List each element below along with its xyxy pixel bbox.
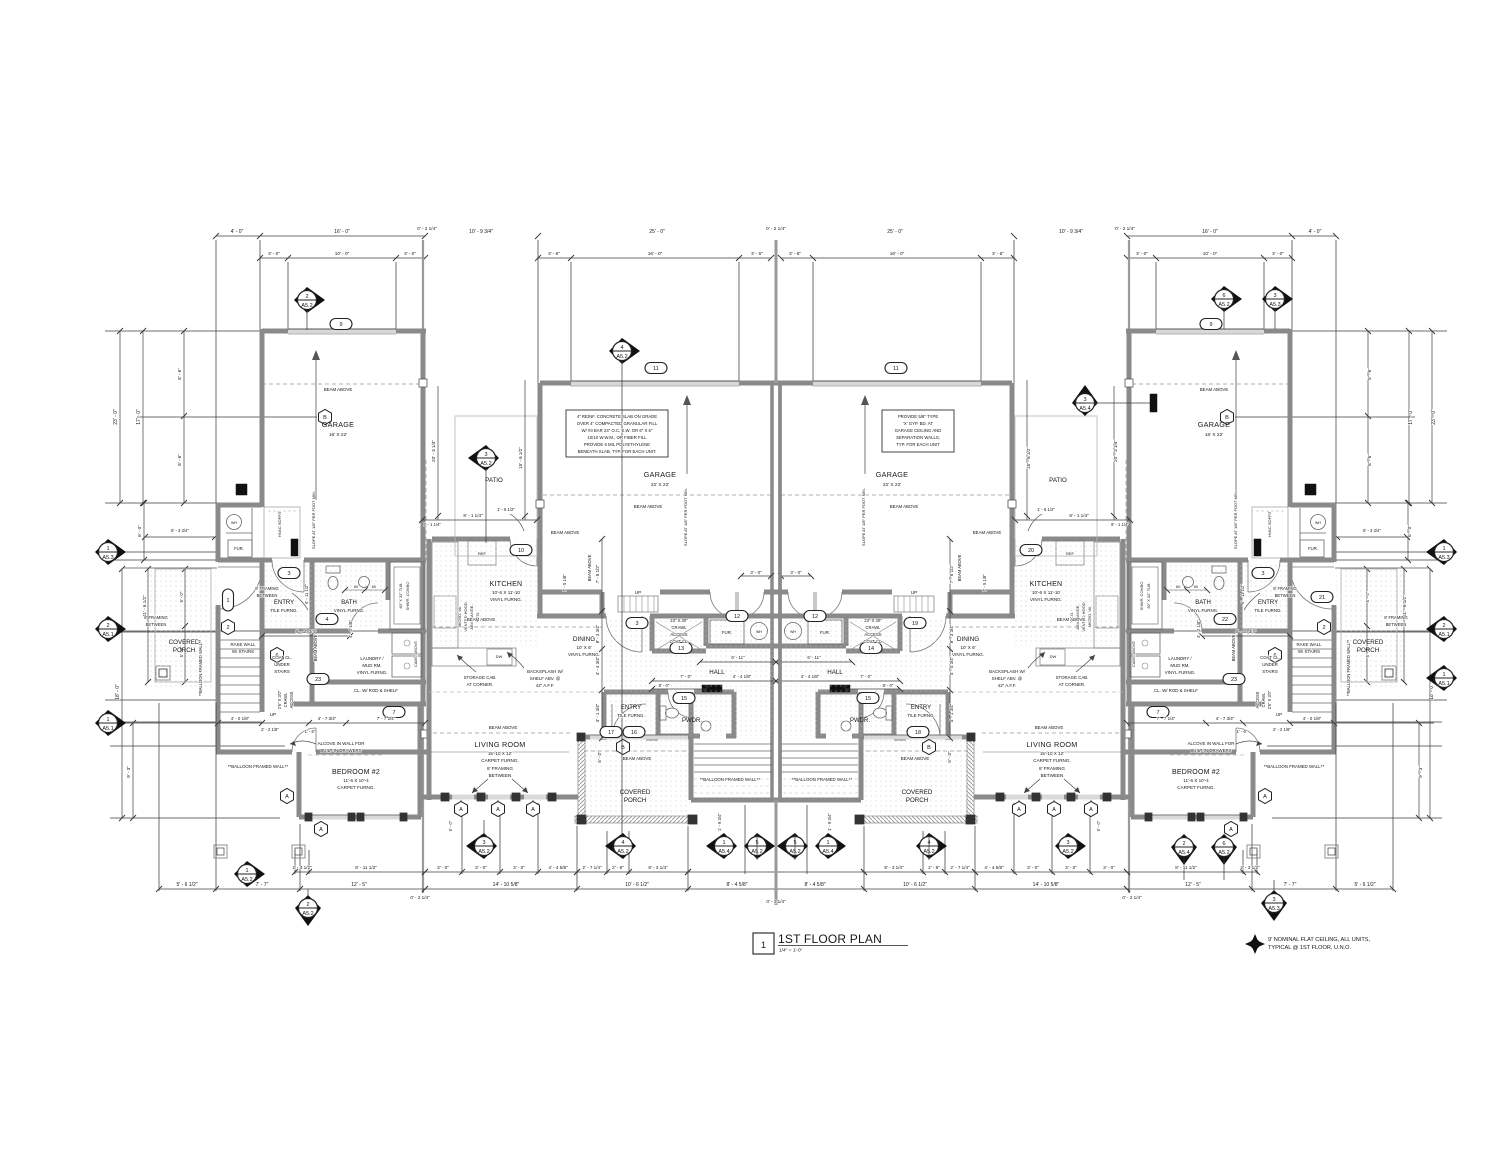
svg-text:A5.2: A5.2	[1218, 302, 1229, 308]
svg-text:PATIO: PATIO	[1049, 477, 1067, 484]
svg-text:GARAGE: GARAGE	[1198, 420, 1231, 429]
svg-text:BEAM ABOVE: BEAM ABOVE	[973, 530, 1002, 535]
svg-text:17' - 0": 17' - 0"	[1408, 409, 1414, 425]
svg-text:CARPET FURNG.: CARPET FURNG.	[1033, 758, 1070, 763]
svg-text:**BALLOON FRAMED WALL**: **BALLOON FRAMED WALL**	[700, 777, 761, 782]
svg-text:LIVING ROOM: LIVING ROOM	[1026, 740, 1077, 749]
tag oval 13	[670, 643, 692, 654]
svg-text:FUR.: FUR.	[722, 630, 732, 635]
svg-text:4: 4	[621, 840, 624, 846]
svg-text:B: B	[621, 745, 625, 751]
svg-text:4: 4	[325, 617, 328, 623]
svg-text:1: 1	[1442, 672, 1445, 678]
svg-text:A: A	[459, 807, 463, 813]
svg-text:COAT CL.: COAT CL.	[670, 639, 689, 644]
svg-text:8' - 4 5/8": 8' - 4 5/8"	[726, 882, 747, 888]
svg-text:VINYL FURNG.: VINYL FURNG.	[568, 652, 600, 657]
svg-text:6' - 0": 6' - 0"	[1407, 525, 1412, 537]
tag oval 10	[510, 545, 532, 556]
svg-text:PROVIDE 5/8" TYPE: PROVIDE 5/8" TYPE	[898, 414, 939, 419]
svg-text:15' - 6 1/2": 15' - 6 1/2"	[1026, 447, 1031, 469]
svg-text:ENTRY: ENTRY	[621, 705, 641, 711]
svg-text:11' - 6 1/2": 11' - 6 1/2"	[142, 595, 147, 617]
svg-text:BEAM ABOVE: BEAM ABOVE	[1231, 634, 1236, 661]
svg-text:10' - 0": 10' - 0"	[335, 251, 350, 256]
svg-text:5' - 0": 5' - 0"	[1096, 820, 1101, 831]
svg-text:CRAWL: CRAWL	[672, 625, 688, 630]
svg-text:60: 60	[1176, 585, 1180, 589]
svg-text:3' - 0": 3' - 0"	[475, 865, 487, 870]
svg-text:4' - 0 1/8": 4' - 0 1/8"	[231, 716, 250, 721]
svg-text:W/ #3 BAR 24" O.C. E.W. OR 6": W/ #3 BAR 24" O.C. E.W. OR 6" X 6"	[582, 428, 653, 433]
svg-text:3: 3	[1083, 397, 1086, 403]
svg-text:HVAC SOFFIT: HVAC SOFFIT	[1267, 510, 1272, 537]
svg-text:SHWR. COMBO: SHWR. COMBO	[405, 582, 410, 611]
tag oval 15	[857, 693, 879, 704]
svg-text:ACCESS: ACCESS	[864, 632, 881, 637]
svg-text:0' - 2 1/4": 0' - 2 1/4"	[417, 226, 437, 231]
svg-text:5' - 0": 5' - 0"	[1365, 591, 1370, 602]
svg-text:4' - 0": 4' - 0"	[1309, 229, 1322, 235]
tag hex A	[1259, 789, 1272, 804]
svg-text:2: 2	[106, 623, 109, 629]
svg-text:8' - 3 3/4": 8' - 3 3/4"	[949, 624, 954, 643]
svg-text:4' - 4 5/8": 4' - 4 5/8"	[984, 865, 1004, 870]
svg-text:8' - 1 1/4": 8' - 1 1/4"	[463, 513, 483, 518]
section marker 2/A5.2	[294, 287, 325, 313]
section marker 3/A5.3	[1261, 890, 1287, 921]
svg-text:SLOPE AT 1/8" PER FOOT MIN.: SLOPE AT 1/8" PER FOOT MIN.	[683, 488, 688, 546]
svg-text:GARAGE: GARAGE	[644, 470, 677, 479]
svg-text:A5.3: A5.3	[1269, 302, 1280, 308]
svg-text:8' - 6": 8' - 6"	[177, 454, 182, 466]
svg-text:4' - 4 3/4": 4' - 4 3/4"	[595, 656, 600, 675]
svg-text:STORAGE CAB.: STORAGE CAB.	[464, 675, 497, 680]
tag hex A	[1048, 802, 1061, 817]
svg-text:9' - 3": 9' - 3"	[1418, 766, 1423, 778]
tag hex B	[319, 410, 332, 425]
svg-text:BATH: BATH	[1195, 600, 1211, 606]
svg-text:BETWEEN: BETWEEN	[489, 773, 512, 778]
svg-text:3' - 0": 3' - 0"	[268, 251, 280, 256]
tag oval 1 vertical left	[223, 589, 234, 611]
svg-text:WH: WH	[231, 521, 237, 525]
svg-text:5' - 6 1/2": 5' - 6 1/2"	[176, 882, 197, 888]
svg-text:7' - 0": 7' - 0"	[680, 674, 692, 679]
svg-text:A5.4: A5.4	[1178, 850, 1189, 856]
svg-text:COVERED: COVERED	[902, 789, 933, 796]
svg-text:20' - 3 1/4": 20' - 3 1/4"	[431, 440, 436, 462]
svg-text:A: A	[1017, 807, 1021, 813]
svg-text:22: 22	[1222, 617, 1228, 623]
svg-text:4' - 4 1/8": 4' - 4 1/8"	[801, 674, 820, 679]
svg-text:8' FRAMING: 8' FRAMING	[1273, 586, 1297, 591]
svg-text:8' FRAMING: 8' FRAMING	[487, 766, 513, 771]
svg-text:10' - 6 1/2": 10' - 6 1/2"	[903, 882, 927, 888]
svg-text:COAT CL.: COAT CL.	[1260, 655, 1280, 660]
svg-text:HALL: HALL	[709, 669, 725, 676]
svg-text:BETWEEN: BETWEEN	[1275, 593, 1296, 598]
svg-text:2: 2	[1322, 625, 1325, 631]
svg-text:COVERED: COVERED	[169, 639, 200, 646]
svg-text:4' - 1 3/4": 4' - 1 3/4"	[595, 703, 600, 722]
svg-text:BETWEEN: BETWEEN	[1041, 773, 1064, 778]
svg-text:18' - 0": 18' - 0"	[115, 684, 121, 700]
svg-text:BACKSPLASH W/: BACKSPLASH W/	[989, 669, 1026, 674]
svg-text:MICRO. W/: MICRO. W/	[457, 606, 462, 627]
tag oval 3	[278, 568, 300, 579]
svg-text:3: 3	[1272, 897, 1275, 903]
svg-text:8' - 6": 8' - 6"	[1367, 454, 1372, 466]
svg-text:6' - 0": 6' - 0"	[137, 525, 142, 537]
svg-text:2: 2	[1182, 841, 1185, 847]
svg-text:11: 11	[893, 366, 899, 372]
svg-text:1' - 6": 1' - 6"	[305, 729, 316, 734]
section marker 2/A5.1	[1426, 616, 1457, 642]
svg-text:22' X 22': 22' X 22'	[883, 482, 901, 488]
svg-text:16' - 0": 16' - 0"	[334, 229, 350, 235]
svg-text:0' - 2 1/4": 0' - 2 1/4"	[766, 899, 786, 904]
svg-text:7' - 0": 7' - 0"	[860, 674, 872, 679]
section marker 6/A5.2	[1211, 834, 1237, 865]
svg-text:2: 2	[306, 902, 309, 908]
svg-text:8' FRAMING: 8' FRAMING	[255, 586, 279, 591]
svg-text:6' - 3 3/4": 6' - 3 3/4"	[1363, 528, 1381, 533]
svg-text:RAKE WALL: RAKE WALL	[1297, 642, 1323, 647]
svg-text:A: A	[1263, 794, 1267, 800]
svg-text:15: 15	[865, 696, 871, 702]
svg-text:8' - 6": 8' - 6"	[177, 368, 182, 380]
svg-text:8' - 10 3/4": 8' - 10 3/4"	[1236, 629, 1257, 634]
svg-text:2: 2	[1442, 623, 1445, 629]
svg-text:60: 60	[1194, 585, 1198, 589]
svg-text:A5.3: A5.3	[102, 555, 113, 561]
svg-text:8' - 11 1/2": 8' - 11 1/2"	[355, 865, 377, 870]
svg-text:PROVIDE 6 MIL POLYETHYLENE: PROVIDE 6 MIL POLYETHYLENE	[584, 442, 650, 447]
svg-text:BEAM ABOVE: BEAM ABOVE	[634, 504, 663, 509]
svg-text:ACCESS: ACCESS	[670, 632, 687, 637]
tag hex 2 left	[222, 620, 235, 635]
svg-text:CRAWL: CRAWL	[866, 625, 882, 630]
svg-text:14' - 10 5/8": 14' - 10 5/8"	[493, 882, 520, 888]
svg-text:A5.2: A5.2	[1062, 849, 1073, 855]
svg-text:10' - 0": 10' - 0"	[1203, 251, 1218, 256]
svg-text:12' - 5": 12' - 5"	[351, 882, 367, 888]
tag hex B	[923, 740, 936, 755]
svg-text:A5.4: A5.4	[822, 849, 833, 855]
svg-text:**BALLOON FRAMED WALL**: **BALLOON FRAMED WALL**	[792, 777, 853, 782]
svg-text:3' - 0": 3' - 0"	[1027, 865, 1039, 870]
svg-text:MUD RM.: MUD RM.	[362, 663, 381, 668]
svg-text:3' - 6": 3' - 6"	[992, 251, 1004, 256]
svg-text:**BALLOON FRAMED WALL**: **BALLOON FRAMED WALL**	[198, 639, 203, 696]
svg-text:4' - 7 3/4": 4' - 7 3/4"	[318, 716, 337, 721]
svg-text:1' - 5 1/2": 1' - 5 1/2"	[497, 507, 515, 512]
svg-text:16' - 0": 16' - 0"	[648, 251, 663, 256]
svg-text:4' - 0 1/8": 4' - 0 1/8"	[1303, 716, 1322, 721]
svg-text:2' - 2 1/8": 2' - 2 1/8"	[1273, 727, 1291, 732]
svg-text:REF: REF	[478, 551, 487, 556]
svg-text:W/ STAIRS: W/ STAIRS	[1298, 649, 1320, 654]
tag hex A	[1225, 822, 1238, 837]
svg-text:OVER 4" COMPACTED GRANULAR FIL: OVER 4" COMPACTED GRANULAR FILL	[577, 421, 658, 426]
section marker 1/A5.2	[234, 861, 265, 887]
tag oval 11	[885, 363, 907, 374]
svg-text:3' - 0": 3' - 0"	[750, 570, 762, 575]
tag oval 18	[907, 727, 929, 738]
section marker 2/A5.1	[95, 616, 126, 642]
section marker 3/A5.3	[1262, 286, 1293, 312]
svg-text:60: 60	[354, 585, 358, 589]
svg-text:3: 3	[287, 571, 290, 577]
svg-text:10: 10	[518, 548, 524, 554]
svg-text:UP: UP	[911, 590, 917, 595]
tag oval 4	[316, 614, 338, 625]
svg-text:B: B	[927, 745, 931, 751]
svg-text:BEAM ABOVE: BEAM ABOVE	[467, 617, 496, 622]
svg-text:7' - 7 1/4": 7' - 7 1/4"	[377, 716, 396, 721]
svg-text:6: 6	[1222, 841, 1225, 847]
svg-text:SLOPE AT 1/8" PER FOOT MIN.: SLOPE AT 1/8" PER FOOT MIN.	[861, 488, 866, 546]
svg-text:CABS. ABOVE: CABS. ABOVE	[1131, 641, 1136, 667]
svg-text:KITCHEN: KITCHEN	[1030, 581, 1063, 588]
svg-text:9' - 1 1/4": 9' - 1 1/4"	[1111, 522, 1129, 527]
svg-text:VINYL FURNG.: VINYL FURNG.	[334, 608, 365, 613]
tag hex A	[1013, 802, 1026, 817]
svg-text:3' - 0": 3' - 0"	[404, 251, 416, 256]
svg-text:TYP. FOR EACH UNIT: TYP. FOR EACH UNIT	[896, 442, 940, 447]
section marker 3/A5.2	[468, 445, 499, 471]
tag oval 23	[1223, 674, 1245, 685]
svg-text:0' - 2 1/4": 0' - 2 1/4"	[1122, 895, 1142, 900]
svg-text:4' - 4 5/8": 4' - 4 5/8"	[548, 865, 568, 870]
svg-text:7' - 5 1/8": 7' - 5 1/8"	[562, 574, 567, 592]
svg-text:BEAM ABOVE: BEAM ABOVE	[1035, 725, 1064, 730]
section marker 1/A5.1	[95, 710, 126, 736]
svg-text:2' - 3 1/2": 2' - 3 1/2"	[1240, 865, 1260, 870]
svg-text:2' - 7 1/4": 2' - 7 1/4"	[582, 865, 602, 870]
svg-text:2' - 2 1/8": 2' - 2 1/8"	[261, 727, 279, 732]
svg-text:7' - 7": 7' - 7"	[1284, 882, 1297, 888]
svg-text:10' X 8': 10' X 8'	[960, 645, 975, 650]
svg-text:7' - 7": 7' - 7"	[256, 882, 269, 888]
svg-text:8' - 10 3/4": 8' - 10 3/4"	[296, 629, 317, 634]
svg-text:3' - 6": 3' - 6"	[789, 251, 801, 256]
svg-text:2' - 8": 2' - 8"	[928, 865, 940, 870]
svg-text:CARPET FURNG.: CARPET FURNG.	[1177, 785, 1214, 790]
svg-text:LAUNDRY /: LAUNDRY /	[360, 656, 384, 661]
svg-text:UP: UP	[1276, 712, 1282, 717]
section marker 1/A5.3	[1426, 539, 1457, 565]
svg-text:6' - 11": 6' - 11"	[807, 655, 821, 660]
svg-text:3' - 0": 3' - 0"	[1103, 865, 1115, 870]
tag oval 7	[383, 707, 405, 718]
svg-text:60: 60	[372, 585, 376, 589]
svg-text:14' - 10 5/8": 14' - 10 5/8"	[1033, 882, 1060, 888]
svg-text:**BALLOON FRAMED WALL**: **BALLOON FRAMED WALL**	[1346, 639, 1351, 696]
svg-text:2' - 3 1/2": 2' - 3 1/2"	[292, 865, 312, 870]
tag oval 7	[1147, 707, 1169, 718]
svg-text:PWDR.: PWDR.	[850, 718, 870, 724]
section marker 5/A5.2	[744, 833, 775, 859]
svg-text:8' - 6": 8' - 6"	[1367, 368, 1372, 380]
svg-text:8' FRAMING: 8' FRAMING	[144, 615, 168, 620]
svg-text:ACCESS: ACCESS	[289, 691, 294, 708]
svg-text:1: 1	[1442, 546, 1445, 552]
note box left unit	[566, 410, 668, 457]
svg-text:BETWEEN: BETWEEN	[257, 593, 278, 598]
svg-text:SLOPE AT 1/8" PER FOOT MIN.: SLOPE AT 1/8" PER FOOT MIN.	[1233, 491, 1238, 549]
svg-text:11' - 6 1/2": 11' - 6 1/2"	[1402, 595, 1407, 617]
svg-text:9: 9	[339, 322, 342, 328]
svg-text:PWDR.: PWDR.	[682, 718, 702, 724]
svg-text:16' X 22': 16' X 22'	[1205, 432, 1223, 438]
svg-text:3' - 0": 3' - 0"	[790, 570, 802, 575]
ceiling note star symbol	[1245, 934, 1265, 954]
svg-text:3' - 0": 3' - 0"	[437, 865, 449, 870]
svg-text:KITCHEN: KITCHEN	[490, 581, 523, 588]
svg-text:BEAM ABOVE: BEAM ABOVE	[623, 756, 652, 761]
svg-text:10' - 9 3/4": 10' - 9 3/4"	[469, 229, 493, 235]
svg-text:8' FRAMING: 8' FRAMING	[1384, 615, 1408, 620]
svg-text:PORCH: PORCH	[173, 647, 195, 654]
svg-text:BEAM ABOVE: BEAM ABOVE	[890, 504, 919, 509]
svg-text:18: 18	[915, 730, 921, 736]
svg-text:12: 12	[734, 614, 740, 620]
svg-text:5' - 0": 5' - 0"	[179, 591, 184, 602]
svg-text:15: 15	[681, 696, 687, 702]
svg-text:A: A	[1052, 807, 1056, 813]
svg-text:5' - 0": 5' - 0"	[448, 820, 453, 831]
svg-text:LIVING ROOM: LIVING ROOM	[474, 740, 525, 749]
svg-text:0' - 2 1/4": 0' - 2 1/4"	[410, 895, 430, 900]
svg-text:A5.3: A5.3	[1268, 906, 1279, 912]
section marker 1/A5.4	[706, 833, 737, 859]
svg-text:42" A.F.F.: 42" A.F.F.	[998, 683, 1016, 688]
svg-text:4' - 0": 4' - 0"	[231, 229, 244, 235]
section marker 1/A5.4	[815, 833, 846, 859]
svg-text:CARPET FURNG.: CARPET FURNG.	[337, 785, 374, 790]
svg-text:SHELF ABV. @: SHELF ABV. @	[992, 676, 1023, 681]
svg-text:17: 17	[608, 730, 614, 736]
svg-text:HALL: HALL	[827, 669, 843, 676]
svg-text:A: A	[319, 827, 323, 833]
svg-text:A5.1: A5.1	[1438, 681, 1449, 687]
svg-text:60" X 32" TUB: 60" X 32" TUB	[398, 583, 403, 608]
svg-text:BETWEEN: BETWEEN	[1386, 622, 1407, 627]
svg-text:1' - 9 3/4": 1' - 9 3/4"	[717, 813, 722, 831]
svg-text:ACCESS: ACCESS	[1255, 691, 1260, 708]
svg-text:2: 2	[226, 625, 229, 631]
svg-text:25' - 0": 25' - 0"	[887, 229, 903, 235]
svg-text:WH: WH	[756, 630, 762, 634]
svg-text:A5.2: A5.2	[301, 303, 312, 309]
svg-text:1: 1	[106, 546, 109, 552]
section marker 5/A5.2	[777, 833, 808, 859]
svg-text:TILE FURNG.: TILE FURNG.	[270, 608, 297, 613]
svg-text:9' - 1 1/4": 9' - 1 1/4"	[423, 522, 441, 527]
svg-text:VINYL FURNG.: VINYL FURNG.	[952, 652, 984, 657]
left half geometry	[105, 233, 779, 893]
svg-text:1: 1	[826, 840, 829, 846]
svg-text:20' - 3 1/4": 20' - 3 1/4"	[1113, 440, 1118, 462]
svg-text:ALCOVE IN WALL FOR: ALCOVE IN WALL FOR	[318, 741, 365, 746]
svg-text:A: A	[285, 794, 289, 800]
tag hex 6	[1269, 648, 1282, 663]
svg-text:BUILT-IN DRAWERS: BUILT-IN DRAWERS	[1190, 748, 1231, 753]
section marker 1/A5.3	[95, 539, 126, 565]
tag hex A	[1085, 802, 1098, 817]
svg-text:8' - 0": 8' - 0"	[659, 683, 670, 688]
svg-text:BEAM ABOVE: BEAM ABOVE	[901, 756, 930, 761]
svg-text:16' X 22': 16' X 22'	[329, 432, 347, 438]
svg-text:15' - 6 1/2": 15' - 6 1/2"	[518, 447, 523, 469]
svg-text:12: 12	[812, 614, 818, 620]
tag oval 20	[1020, 545, 1042, 556]
section marker 3/A5.2	[1055, 833, 1086, 859]
svg-text:SHELF ABV. @: SHELF ABV. @	[530, 676, 561, 681]
section marker 4/A5.2	[605, 833, 636, 859]
svg-text:A5.2: A5.2	[616, 354, 627, 360]
tag oval 23	[307, 674, 329, 685]
svg-text:6' - 11 1/2": 6' - 11 1/2"	[1240, 584, 1245, 604]
svg-text:1/4" = 1'-0": 1/4" = 1'-0"	[779, 948, 803, 954]
svg-text:COAT CL.: COAT CL.	[272, 655, 292, 660]
svg-text:8' - 3 3/4": 8' - 3 3/4"	[595, 624, 600, 643]
svg-text:CRAWL: CRAWL	[1261, 692, 1266, 707]
svg-text:BEAM ABOVE: BEAM ABOVE	[1200, 387, 1229, 392]
svg-text:UNDER: UNDER	[274, 662, 290, 667]
svg-text:WH: WH	[1315, 521, 1321, 525]
svg-text:FUR.: FUR.	[1308, 546, 1318, 551]
svg-text:ENTRY: ENTRY	[911, 705, 931, 711]
tag oval 9	[330, 319, 352, 330]
svg-text:0' - 2 1/4": 0' - 2 1/4"	[766, 226, 786, 231]
svg-text:HVAC SOFFIT: HVAC SOFFIT	[277, 510, 282, 537]
svg-text:STORAGE CAB.: STORAGE CAB.	[1056, 675, 1089, 680]
svg-text:17' - 0": 17' - 0"	[136, 409, 142, 425]
tag oval 11	[645, 363, 667, 374]
svg-text:TILE FURNG.: TILE FURNG.	[907, 713, 934, 718]
svg-text:3' - 0": 3' - 0"	[1136, 251, 1148, 256]
svg-text:DINING: DINING	[573, 636, 595, 643]
svg-text:23: 23	[315, 677, 321, 683]
tag hex A	[281, 789, 294, 804]
svg-text:A5.3: A5.3	[1438, 555, 1449, 561]
svg-text:DW: DW	[1050, 654, 1057, 659]
svg-text:CABS. ABOVE: CABS. ABOVE	[413, 641, 418, 667]
svg-text:16' - 0": 16' - 0"	[890, 251, 905, 256]
tag hex B	[617, 740, 630, 755]
svg-text:42" A.F.F.: 42" A.F.F.	[536, 683, 554, 688]
svg-text:3: 3	[1273, 293, 1276, 299]
svg-text:TYPICAL @ 1ST FLOOR, U.N.O.: TYPICAL @ 1ST FLOOR, U.N.O.	[1268, 945, 1352, 951]
svg-text:14: 14	[868, 646, 874, 652]
svg-text:UNDER: UNDER	[1262, 662, 1278, 667]
tag hex 2 right	[1318, 620, 1331, 635]
svg-text:2'6" X 3'0": 2'6" X 3'0"	[277, 690, 282, 709]
svg-text:1' - 6": 1' - 6"	[1237, 729, 1248, 734]
svg-text:11'-6 X 10'-4: 11'-6 X 10'-4	[343, 778, 369, 783]
svg-text:6' - 11 1/2": 6' - 11 1/2"	[304, 584, 309, 604]
svg-text:BEAM ABOVE: BEAM ABOVE	[324, 387, 353, 392]
svg-text:6: 6	[1222, 293, 1225, 299]
tag oval 15	[673, 693, 695, 704]
svg-text:WH: WH	[790, 630, 796, 634]
svg-text:ALCOVE IN WALL FOR: ALCOVE IN WALL FOR	[1188, 741, 1235, 746]
tag oval 22	[1214, 614, 1236, 625]
svg-text:6' - 3 3/4": 6' - 3 3/4"	[171, 528, 189, 533]
